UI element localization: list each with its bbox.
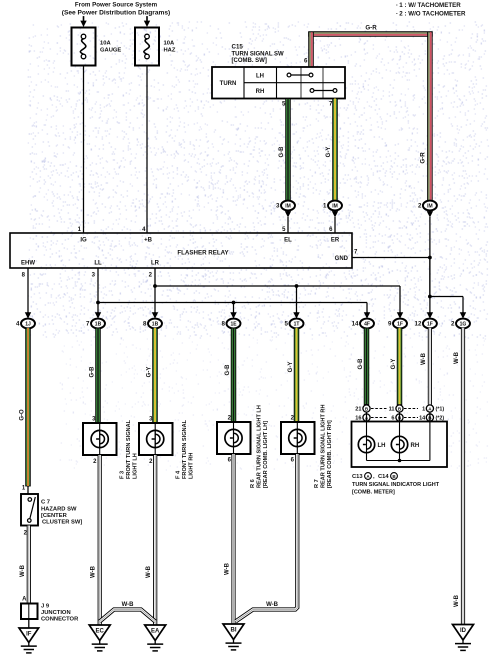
- front turn signal light LH F3: [83, 423, 117, 455]
- svg-text:G-Y: G-Y: [391, 359, 397, 370]
- svg-text:14: 14: [352, 321, 359, 328]
- connector 8 1E: [222, 319, 241, 329]
- svg-text:9: 9: [388, 321, 392, 328]
- ground IF: [19, 628, 39, 653]
- label front turn signal light LH F3: [120, 419, 139, 479]
- connector 1 IM: [323, 201, 342, 211]
- rear turn signal light RH R7: [281, 422, 315, 454]
- arrow into connector 7 1B: [95, 312, 101, 319]
- svg-text:8: 8: [222, 321, 226, 328]
- svg-text:ID: ID: [460, 628, 467, 634]
- svg-text:[REAR COMB. LIGHT LH]: [REAR COMB. LIGHT LH]: [263, 421, 269, 488]
- ground EA: [145, 625, 166, 651]
- svg-text:CONNECTOR: CONNECTOR: [41, 617, 79, 623]
- wire connector 2 IM down to GND junction: [429, 217, 431, 297]
- wire GND wire from relay pin7: [352, 257, 430, 259]
- svg-text:4F: 4F: [364, 321, 370, 327]
- wire G-R vertical into switch pin 6: [309, 32, 314, 67]
- svg-text:HAZ: HAZ: [164, 48, 176, 54]
- svg-text:1: 1: [323, 203, 327, 210]
- connector 8 1B: [143, 319, 162, 329]
- indicator wiring inside meter: [367, 422, 430, 463]
- svg-text:RH: RH: [411, 443, 420, 449]
- label G-Y rear RH: [288, 362, 294, 373]
- svg-text:IM: IM: [285, 203, 291, 209]
- svg-text:[COMB. SW]: [COMB. SW]: [232, 58, 267, 64]
- label W-B right upper: [454, 351, 460, 364]
- svg-text:EC: EC: [96, 629, 105, 635]
- wire LR stem down: [154, 268, 156, 313]
- wire W-B rear RH lamp jog to ground BI: [236, 454, 298, 622]
- indicator bulb RH: [391, 436, 419, 452]
- svg-text:· 2 : W/O TACHOMETER: · 2 : W/O TACHOMETER: [396, 11, 466, 18]
- svg-text:W-B: W-B: [454, 351, 460, 364]
- wire G-Y from switch pin 7: [333, 99, 338, 202]
- svg-text:(*1): (*1): [436, 407, 445, 413]
- svg-text:(See Power Distribution Diagra: (See Power Distribution Diagrams): [62, 10, 170, 17]
- wire W-B front LH lamp to ground EC: [98, 455, 102, 625]
- label front turn signal light RH F4: [176, 419, 195, 479]
- wire W-B to meter: [428, 328, 432, 405]
- wire fuse1 to relay IG: [83, 66, 85, 234]
- meter pin 21 B: [363, 405, 370, 412]
- fuse 10A GAUGE: [72, 28, 122, 66]
- svg-text:RH: RH: [256, 89, 265, 95]
- front turn signal light RH F4: [139, 423, 173, 455]
- svg-text:G-B: G-B: [225, 364, 231, 376]
- svg-text:G-Y: G-Y: [326, 147, 332, 158]
- ground EC: [89, 625, 110, 651]
- svg-text:LL: LL: [94, 261, 102, 267]
- svg-text:G-B: G-B: [279, 146, 285, 158]
- arrow into connector 5 1T: [293, 312, 299, 319]
- wire W-B link EC-EA: [100, 610, 156, 622]
- svg-text:8: 8: [143, 321, 147, 328]
- svg-text:ER: ER: [331, 238, 340, 244]
- svg-text:REAR TURN SIGNAL LIGHT LH: REAR TURN SIGNAL LIGHT LH: [256, 405, 262, 488]
- wire connector 1 IM to relay ER: [334, 217, 336, 233]
- wire G-B to meter LH indicator: [364, 328, 369, 405]
- rear turn signal light LH R6: [217, 422, 251, 454]
- meter caption: [352, 473, 440, 496]
- wire EHW stem down: [27, 268, 29, 313]
- label G-Y front RH: [147, 367, 153, 378]
- indicator bulb LH: [358, 436, 385, 452]
- connector 12 1F: [415, 319, 437, 329]
- svg-text:FRONT TURN SIGNAL: FRONT TURN SIGNAL: [182, 419, 188, 479]
- svg-text:REAR TURN SIGNAL LIGHT RH: REAR TURN SIGNAL LIGHT RH: [320, 405, 326, 489]
- connector 4 1J: [16, 319, 35, 329]
- fuse 10A HAZ: [135, 28, 176, 66]
- ground ID: [453, 625, 474, 651]
- svg-text:A: A: [22, 597, 27, 603]
- switch RH contact: [310, 89, 337, 93]
- svg-text:4: 4: [16, 321, 20, 328]
- connector 2 IM: [418, 201, 437, 211]
- wire stem meter RH: [399, 412, 401, 421]
- svg-text:LIGHT RH: LIGHT RH: [188, 453, 194, 479]
- svg-text:LH: LH: [378, 443, 386, 449]
- arrow into connector 4 1J: [25, 312, 31, 319]
- relay top pin numbers: [78, 227, 334, 233]
- meter pin 11 B: [396, 405, 403, 412]
- svg-text:21: 21: [355, 407, 361, 413]
- label G-B meter: [358, 358, 364, 370]
- meter pin row notes: [436, 407, 445, 422]
- label rear turn signal light LH R6: [250, 405, 269, 488]
- svg-text:10A: 10A: [164, 41, 175, 47]
- label G-B front LH: [90, 366, 96, 378]
- hazard switch C7: [21, 494, 38, 526]
- label G-B rear LH: [225, 364, 231, 376]
- svg-text:1J: 1J: [25, 321, 31, 327]
- turn signal indicator light box [COMB. METER]: [352, 422, 448, 468]
- svg-text:1B: 1B: [152, 321, 159, 327]
- svg-text:BI: BI: [231, 628, 237, 634]
- wire G-O stub into hazard switch: [27, 486, 29, 494]
- meter pin 14 B: [426, 414, 433, 421]
- wire LL bus drop rear LH: [233, 303, 235, 314]
- label hazard switch C7: [41, 500, 82, 526]
- label W-B hazard: [20, 564, 26, 577]
- svg-text:LH: LH: [256, 74, 264, 80]
- wire G-B from switch pin 5: [286, 99, 291, 202]
- wire GND vertical continues: [429, 258, 431, 297]
- turn signal switch C15 box: [212, 67, 345, 99]
- svg-text:W-B: W-B: [146, 565, 152, 578]
- svg-text:1T: 1T: [294, 321, 300, 327]
- label W-B right lower: [454, 594, 460, 607]
- svg-text:R 7: R 7: [314, 479, 320, 488]
- connector 9 1F: [388, 319, 407, 329]
- svg-text:C14: C14: [378, 474, 389, 480]
- svg-text:W-B: W-B: [266, 602, 279, 608]
- arrow into fuse 1: [80, 16, 86, 27]
- svg-text:IM: IM: [332, 203, 338, 209]
- connector 7 1B: [86, 319, 105, 329]
- svg-text:G-O: G-O: [20, 409, 26, 421]
- svg-text:6: 6: [304, 58, 308, 65]
- arrow into connector 2 1G: [460, 312, 466, 319]
- svg-text:IM: IM: [427, 203, 433, 209]
- junction LL bus junction rear LH: [232, 301, 236, 305]
- svg-text:IG: IG: [80, 238, 87, 244]
- wire LL bus drop meter LH: [366, 303, 368, 314]
- arrow into connector 12 1F: [427, 312, 433, 319]
- connector 5 1T: [285, 319, 304, 329]
- arrow into connector 9 1F: [397, 312, 403, 319]
- svg-text:[COMB. METER]: [COMB. METER]: [352, 490, 395, 496]
- svg-text:GAUGE: GAUGE: [100, 48, 121, 54]
- svg-text:C 7: C 7: [41, 500, 50, 506]
- meter pin row dashes: [371, 409, 418, 418]
- svg-text:1G: 1G: [460, 321, 467, 327]
- header: power source note: [62, 2, 170, 17]
- connector 2 1G: [451, 319, 470, 329]
- arrow into connector 8 1B: [152, 312, 158, 319]
- svg-text:FLASHER RELAY: FLASHER RELAY: [177, 250, 229, 257]
- svg-text:HAZARD SW: HAZARD SW: [41, 507, 77, 513]
- svg-text:G-R: G-R: [420, 152, 427, 164]
- label W-B rear LH: [225, 562, 231, 575]
- svg-text:TURN: TURN: [220, 81, 237, 87]
- wire LR bus drop meter RH: [399, 286, 401, 313]
- meter pin 6 B: [396, 414, 403, 421]
- wire connector 3 IM to relay EL: [287, 217, 289, 233]
- svg-text:EL: EL: [284, 238, 292, 244]
- svg-text:F 4: F 4: [176, 470, 182, 479]
- wire LL bus: [98, 302, 367, 304]
- junction connector J9: [21, 604, 38, 620]
- svg-text:G-Y: G-Y: [288, 362, 294, 373]
- svg-text:LR: LR: [151, 261, 160, 267]
- svg-text:[CENTER: [CENTER: [41, 513, 68, 519]
- label G-B: [279, 146, 285, 158]
- svg-text:C15: C15: [232, 44, 244, 51]
- svg-text:W-B: W-B: [454, 594, 460, 607]
- wire W-B hazard switch to junction connector: [27, 526, 31, 604]
- arrow below connector 1 IM: [332, 210, 338, 218]
- svg-text:C13: C13: [352, 474, 363, 480]
- wire W-B right to ground ID: [461, 328, 465, 625]
- svg-text:CLUSTER SW]: CLUSTER SW]: [42, 520, 82, 526]
- svg-text:1F: 1F: [397, 321, 403, 327]
- label G-Y: [326, 147, 332, 158]
- arrow into connector 14 4F: [364, 312, 370, 319]
- svg-text:· 1 : W/ TACHOMETER: · 1 : W/ TACHOMETER: [396, 2, 461, 9]
- svg-text:1B: 1B: [95, 321, 102, 327]
- svg-text:GND: GND: [335, 256, 349, 262]
- label rear turn signal light RH R7: [314, 405, 333, 489]
- wire LR bus: [155, 285, 400, 287]
- turn signal switch C15 label: [232, 44, 285, 65]
- wire LL stem down: [97, 268, 99, 313]
- label W-B front LH: [91, 565, 97, 578]
- wire W-B front RH lamp to ground EA: [153, 455, 157, 625]
- svg-text:3: 3: [276, 203, 280, 210]
- svg-text:G-Y: G-Y: [147, 367, 153, 378]
- wire G-B to rear turn signal LH: [231, 328, 236, 422]
- lamp pin numbers top: [92, 416, 295, 423]
- svg-text:12: 12: [415, 321, 422, 328]
- wire fuse2 to relay +B: [146, 66, 148, 234]
- svg-text:W-B: W-B: [20, 564, 26, 577]
- svg-text:TURN SIGNAL INDICATOR LIGHT: TURN SIGNAL INDICATOR LIGHT: [352, 482, 440, 488]
- junction GND junction: [428, 256, 432, 260]
- svg-text:1F: 1F: [427, 321, 433, 327]
- connector 3 IM: [276, 201, 295, 211]
- svg-text:F 3: F 3: [120, 471, 126, 479]
- label W-B front RH: [146, 565, 152, 578]
- svg-text:1E: 1E: [230, 321, 237, 327]
- wire W-B rear LH lamp to ground BI: [231, 454, 235, 624]
- wire stem meter LH: [366, 412, 368, 421]
- label G-R right: [420, 152, 427, 164]
- wire G-R vertical right side: [428, 32, 433, 201]
- svg-text:2: 2: [418, 203, 422, 210]
- wire G-Y to rear turn signal RH: [294, 328, 299, 422]
- svg-text:W-B: W-B: [225, 562, 231, 575]
- arrow below connector 3 IM: [285, 210, 291, 218]
- wire junction connector to ground IF: [28, 619, 30, 628]
- junction LR bus junction rear RH: [295, 284, 299, 288]
- arrow into fuse 2: [144, 16, 150, 27]
- svg-text:1: 1: [422, 407, 425, 413]
- lamp pin numbers bottom: [93, 458, 295, 466]
- wire branch to connector 2 1G horizontal: [430, 296, 463, 298]
- wire G-O to hazard switch: [26, 328, 31, 486]
- svg-text:EHW: EHW: [21, 261, 35, 267]
- svg-text:[REAR COMB. LIGHT RH]: [REAR COMB. LIGHT RH]: [327, 420, 333, 488]
- wire LR bus drop rear RH: [296, 286, 298, 313]
- wire G-Y to front turn signal RH: [153, 328, 158, 423]
- flasher relay box: [10, 233, 352, 268]
- wire branch to connector 2 1G vertical: [462, 297, 464, 314]
- meter pin row numbers: [355, 407, 426, 422]
- svg-text:7: 7: [86, 321, 90, 328]
- arrow into connector 8 1E: [230, 312, 236, 319]
- wire G-B to front turn signal LH: [96, 328, 101, 423]
- svg-text:From Power Source System: From Power Source System: [75, 2, 158, 9]
- label junction connector J9: [41, 604, 79, 623]
- svg-text:FRONT TURN SIGNAL: FRONT TURN SIGNAL: [126, 419, 132, 479]
- wire G-R horizontal top: [309, 32, 433, 37]
- svg-text:G-B: G-B: [90, 366, 96, 378]
- svg-text:W-B: W-B: [122, 602, 135, 608]
- junction junction to 1G: [428, 295, 432, 299]
- wire stem meter WB: [429, 412, 431, 421]
- connector 14 4F: [352, 319, 374, 329]
- junction LL bus junction at LL stem: [96, 301, 100, 305]
- svg-text:W-B: W-B: [421, 352, 427, 365]
- scan speckle background (decorative): [28, 22, 489, 470]
- arrow below connector 2 IM: [427, 210, 433, 218]
- legend tachometer notes: [396, 2, 466, 18]
- svg-text:2: 2: [451, 321, 455, 328]
- label W-B meter: [421, 352, 427, 365]
- svg-text:EA: EA: [151, 629, 160, 635]
- junction LR bus junction at LR stem: [153, 284, 157, 288]
- svg-text:G-B: G-B: [358, 358, 364, 370]
- svg-text:IF: IF: [26, 632, 32, 638]
- label G-O: [20, 409, 26, 421]
- svg-text:TURN SIGNAL SW: TURN SIGNAL SW: [232, 52, 285, 58]
- label G-Y meter: [391, 359, 397, 370]
- svg-text:W-B: W-B: [91, 565, 97, 578]
- wire GND down to connector 12: [429, 297, 431, 314]
- svg-text:10A: 10A: [100, 41, 111, 47]
- svg-text:5: 5: [285, 321, 289, 328]
- svg-text:+B: +B: [144, 238, 153, 244]
- svg-text:J 9: J 9: [41, 604, 50, 610]
- svg-text:JUNCTION: JUNCTION: [41, 610, 71, 616]
- svg-text:11: 11: [389, 407, 395, 413]
- svg-text:LIGHT LH: LIGHT LH: [132, 453, 138, 479]
- svg-text:R 6: R 6: [250, 479, 256, 488]
- relay bottom pin numbers: [22, 273, 153, 279]
- meter pin 1 A: [426, 405, 433, 412]
- switch LH contact: [287, 73, 313, 77]
- wire G-Y to meter RH indicator: [397, 328, 402, 405]
- ground BI: [223, 624, 244, 650]
- meter pin 16 A: [363, 414, 370, 421]
- svg-text:G-R: G-R: [365, 25, 377, 32]
